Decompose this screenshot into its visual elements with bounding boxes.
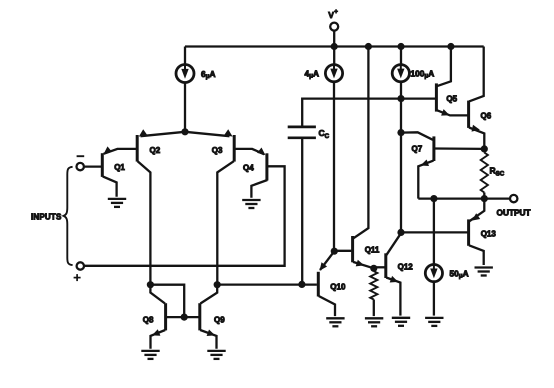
svg-text:Q4: Q4	[243, 164, 254, 173]
svg-text:+: +	[334, 9, 338, 16]
svg-text:INPUTS: INPUTS	[31, 213, 62, 222]
svg-text:OUTPUT: OUTPUT	[497, 208, 531, 218]
svg-text:Q1: Q1	[114, 163, 125, 172]
svg-text:Q8: Q8	[143, 316, 154, 325]
svg-text:Q12: Q12	[398, 263, 414, 272]
svg-text:100μA: 100μA	[411, 69, 435, 80]
svg-text:Q6: Q6	[481, 112, 492, 121]
svg-text:Q11: Q11	[365, 246, 380, 255]
svg-text:Q7: Q7	[412, 145, 423, 154]
svg-text:Q9: Q9	[214, 316, 225, 325]
svg-text:Q10: Q10	[330, 282, 346, 291]
svg-text:Q3: Q3	[212, 146, 223, 155]
svg-text:Q13: Q13	[481, 230, 497, 239]
svg-text:Q2: Q2	[150, 146, 161, 155]
svg-text:Q5: Q5	[446, 95, 457, 104]
